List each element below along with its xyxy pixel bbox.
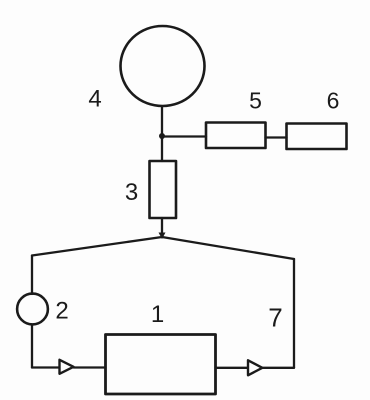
arrow/valve A pointing right [60, 360, 74, 374]
wire right side (branch 7) up to right corner [293, 259, 295, 368]
svg-text:2: 2 [55, 298, 68, 325]
wire left corner down to circle 2 [31, 256, 33, 295]
block 3 (vertical element) [150, 161, 177, 218]
wire stem from circle 4 to block 3 [161, 106, 163, 161]
wire apex to right corner [162, 237, 294, 259]
svg-text:5: 5 [249, 88, 262, 114]
block 5 [206, 123, 266, 149]
wire circle 2 down to bottom-left corner [31, 325, 33, 368]
svg-text:4: 4 [88, 86, 101, 113]
block 1 [106, 335, 216, 395]
circle element 2 [17, 294, 48, 325]
svg-text:3: 3 [125, 179, 138, 206]
wire block 3 to apex node [161, 218, 163, 236]
arrow/valve B pointing right [248, 360, 262, 375]
apex node arrowhead [159, 233, 166, 240]
wire arrow B to bottom-right corner [262, 367, 294, 369]
svg-text:7: 7 [268, 303, 282, 333]
wire arrow A to block 1 [74, 366, 106, 368]
wire block 5 to block 6 [266, 136, 287, 138]
svg-text:6: 6 [327, 88, 340, 114]
svg-text:1: 1 [151, 301, 164, 328]
node junction dot [159, 133, 165, 139]
wire block 1 to arrow B [216, 367, 249, 369]
wire bottom-left corner to arrow A [32, 366, 60, 368]
wire apex to left corner [32, 237, 162, 256]
circle element 4 [121, 26, 205, 106]
wire junction to block 5 [162, 135, 206, 137]
block 6 [287, 124, 347, 150]
